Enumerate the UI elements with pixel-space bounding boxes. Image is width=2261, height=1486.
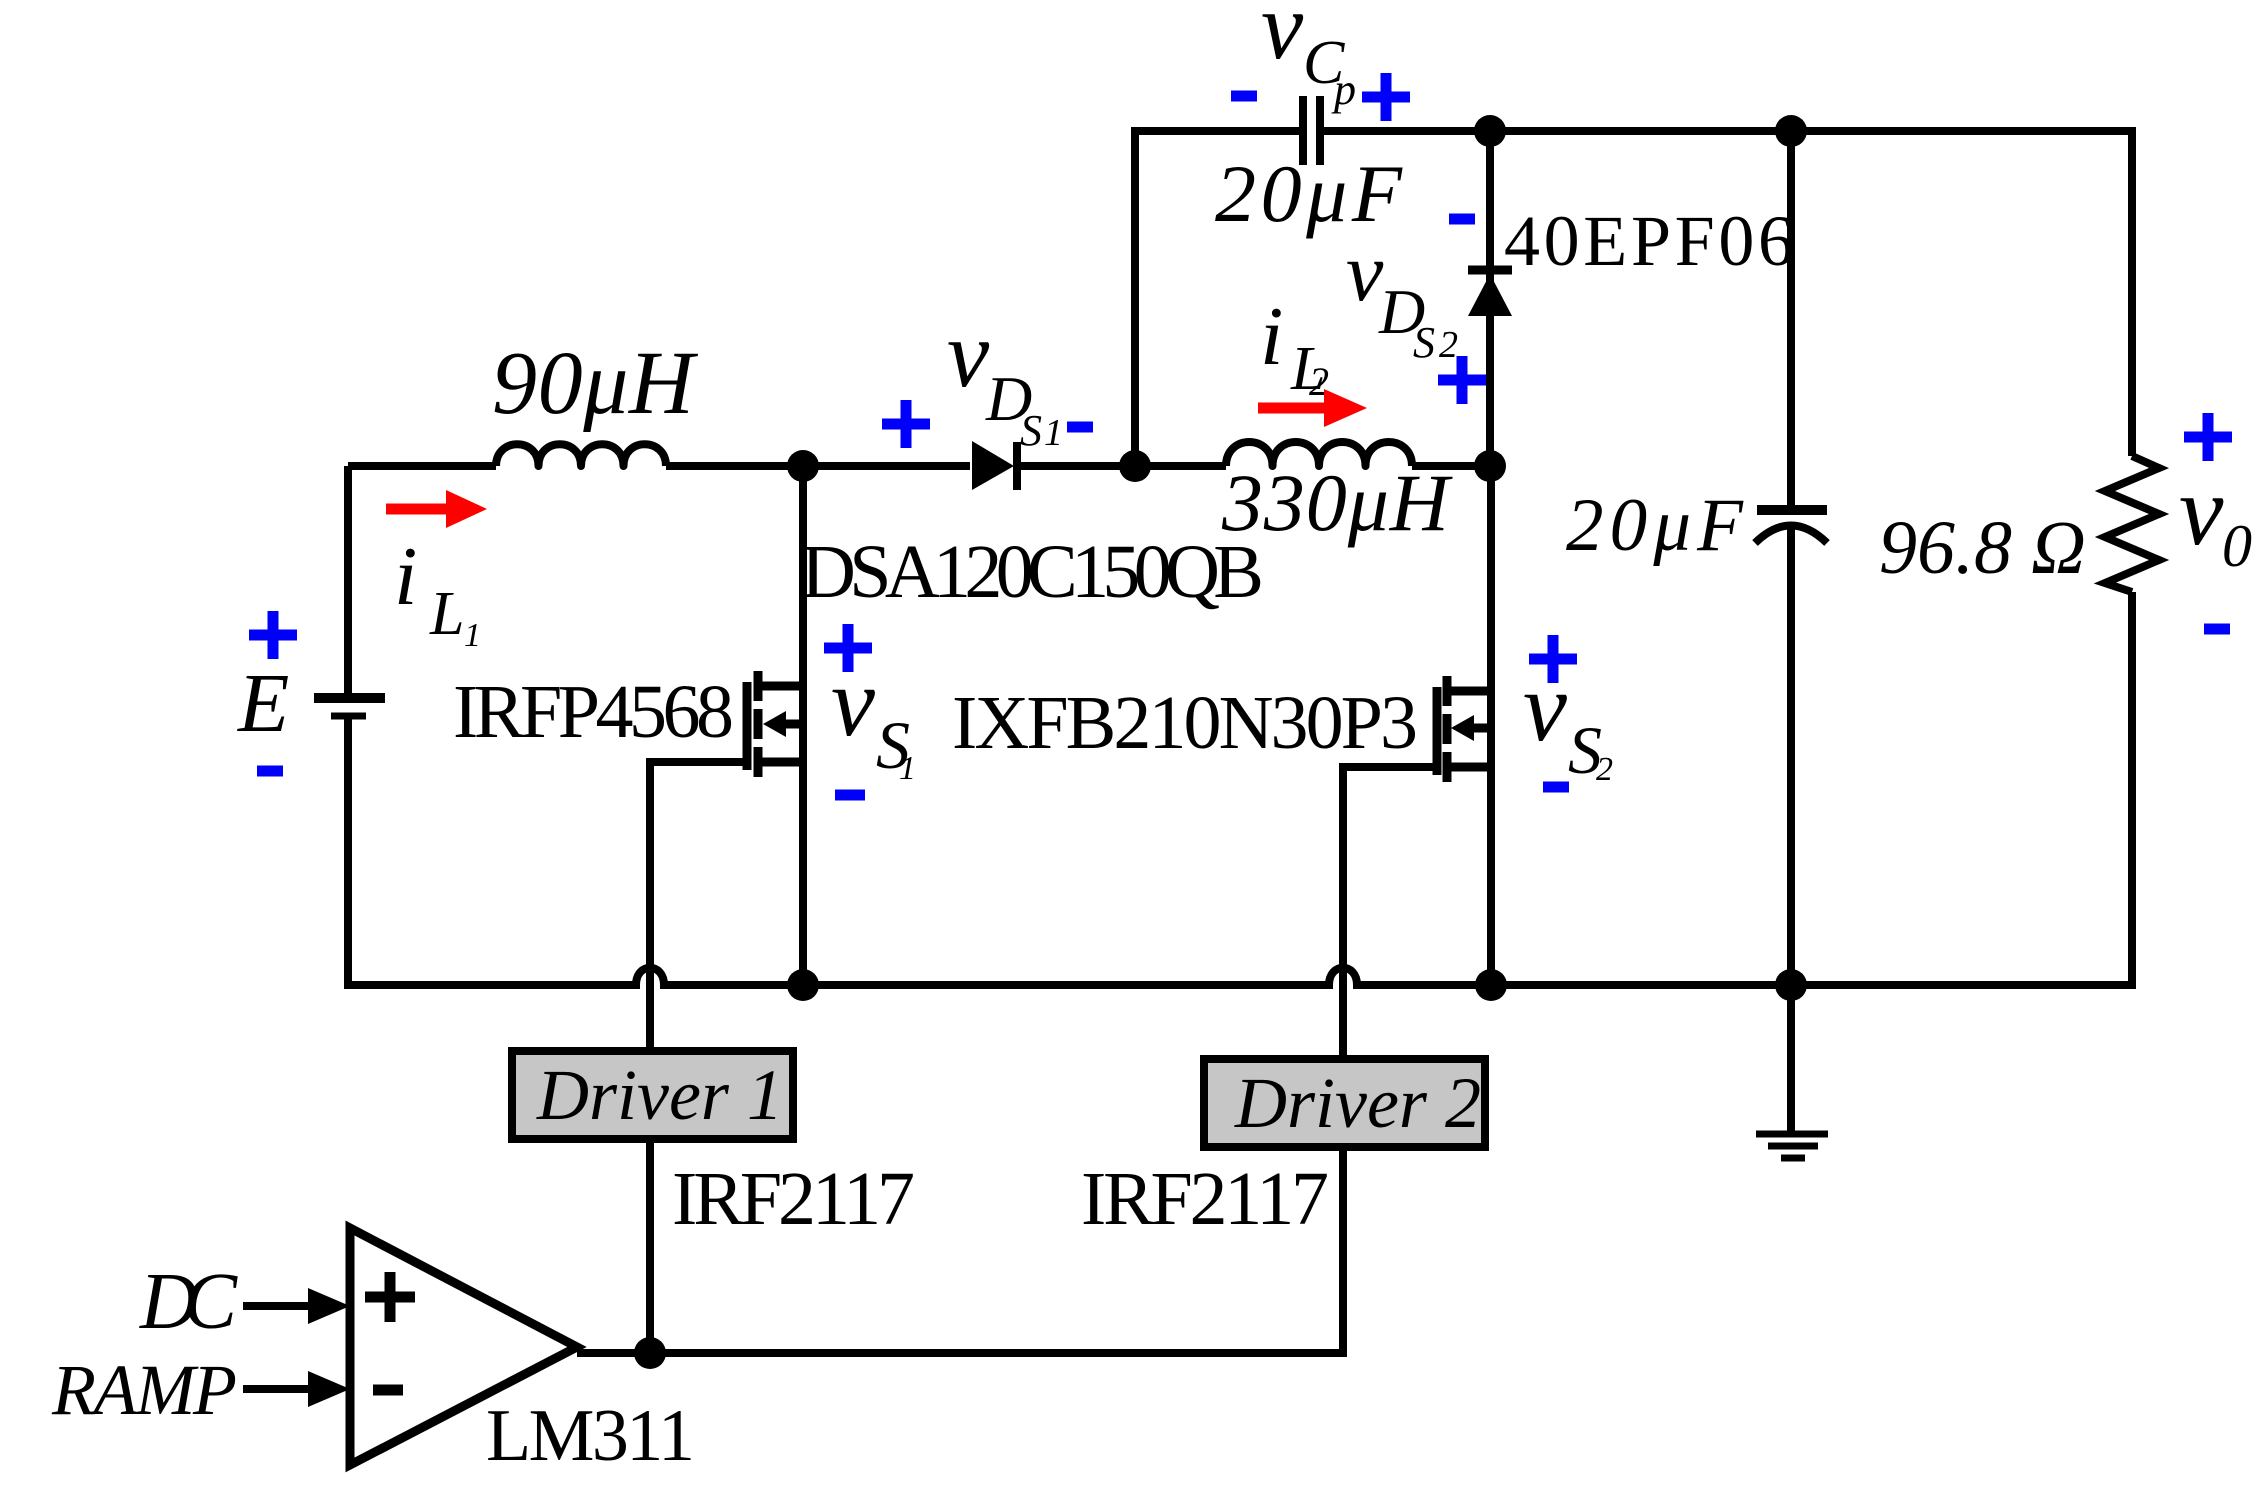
node vS1 plus [824,624,872,672]
wire output cap top [1787,131,1795,509]
driver 1 box [512,1051,793,1139]
node D junction dot [1474,115,1506,147]
svg-text:2: 2 [1439,324,1458,366]
inductor L1 90uH [496,444,666,466]
wire output bus to driver2 [577,1151,1343,1353]
node H junction dot [1775,969,1807,1001]
driver 2 box [1204,1059,1485,1147]
node C junction dot [1474,450,1506,482]
svg-text:p: p [1331,65,1356,114]
wire L1 to diode DS1 [666,462,970,470]
wire node A up to capacitor Cp [1135,131,1300,466]
svg-text:IRFP4568: IRFP4568 [453,670,734,754]
svg-text:IXFB210N30P3: IXFB210N30P3 [952,681,1418,765]
node vS1 minus [835,790,865,801]
node vCp minus [1231,91,1257,102]
transistor S2 IXFB210N30P3 [1437,676,1491,782]
diode DS1 [972,441,1017,490]
node E junction dot [1775,115,1807,147]
svg-text:2: 2 [1596,751,1613,788]
svg-text:i: i [394,530,417,623]
svg-text:L: L [429,580,464,648]
wire to ground [1787,985,1795,1131]
capacitor Cp plates [1303,96,1320,165]
svg-text:IRF2117: IRF2117 [672,1157,915,1241]
svg-text:S: S [1413,318,1435,367]
svg-text:1: 1 [1044,412,1063,454]
capacitor Cout plates [1755,510,1827,543]
svg-text:Driver 1: Driver 1 [536,1055,783,1135]
svg-text:v: v [1261,0,1304,79]
node E minus [257,766,283,777]
DC input arrow [243,1288,350,1324]
wire S2 gate to driver2 [1343,767,1436,1055]
ground [1756,1134,1828,1158]
inductor L2 330uH [1226,442,1412,466]
svg-text:90μH: 90μH [492,334,699,433]
LM311 plus input mark [365,1272,415,1322]
wire diode DS2 branch vertical [1486,131,1494,466]
wire capacitor Cp to top right corner [1323,131,2132,456]
node B junction dot [1119,450,1151,482]
label v_DS2 [1346,226,1458,367]
svg-text:20μF: 20μF [1566,484,1744,567]
LM311 minus input mark [373,1385,403,1396]
wire S2 drain-source vertical [1487,466,1495,985]
node E plus [249,611,297,659]
node vDS2 minus [1449,214,1475,225]
red current arrow iL1 [386,490,487,528]
node v0 plus [2184,413,2232,461]
diode DS2 40EPF06 [1468,270,1512,316]
svg-text:1: 1 [899,750,916,787]
svg-text:DSA120C150QB: DSA120C150QB [801,530,1264,614]
svg-text:v: v [1523,653,1567,762]
svg-text:1: 1 [464,617,481,654]
svg-text:96.8 Ω: 96.8 Ω [1879,506,2086,590]
svg-text:DC: DC [139,1258,239,1346]
label v_S1 [831,648,916,787]
node vDS1 minus [1067,422,1093,433]
svg-text:0: 0 [2222,513,2252,579]
label i_L1 [394,530,481,654]
svg-text:40EPF06: 40EPF06 [1504,201,1794,281]
battery E plates [314,698,385,716]
node vDS2 plus [1438,356,1486,404]
blue polarity marks [249,73,2232,795]
bottom rail with hops [344,592,2132,985]
wire S1 gate to driver1 [650,762,745,1047]
svg-text:IRF2117: IRF2117 [1081,1157,1329,1241]
node I junction dot [634,1337,666,1369]
wire L2 to node B [1412,462,1491,470]
node vS2 plus [1529,635,1577,683]
wire S1 drain-source vertical [799,466,807,985]
label v_0 [2179,455,2252,579]
svg-text:LM311: LM311 [486,1395,695,1477]
red current arrow iL2 [1258,389,1367,427]
wire diode DS1 to L2 [1018,462,1226,470]
svg-text:S: S [1020,406,1042,455]
svg-text:Driver 2: Driver 2 [1234,1063,1481,1143]
wire output cap bottom [1787,525,1795,985]
resistor RL zigzag [2105,456,2159,592]
wire main rail left from source to L1 [348,462,496,470]
node A junction dot [787,450,819,482]
label v_S2 [1523,653,1613,788]
RAMP input arrow [243,1371,350,1407]
svg-text:E: E [237,657,289,750]
svg-text:v: v [2179,455,2224,566]
wire battery top [344,466,352,694]
svg-text:v: v [947,301,990,407]
node G junction dot [1475,969,1507,1001]
node vDS1 plus [882,400,930,448]
wire driver1 to output bus [646,1142,654,1353]
node v0 minus [2204,624,2230,635]
label i_L2 [1260,290,1329,404]
op-amp comparator LM311 [350,1228,577,1465]
node vS2 minus [1543,782,1569,793]
svg-text:i: i [1260,290,1283,383]
wire battery bottom [344,719,352,985]
node F junction dot [787,969,819,1001]
label v_DS1 [947,301,1063,455]
node vCp plus [1362,73,1410,121]
svg-text:RAMP: RAMP [51,1350,237,1430]
transistor S1 IRFP4568 [747,671,803,777]
label v_Cp [1261,0,1356,114]
